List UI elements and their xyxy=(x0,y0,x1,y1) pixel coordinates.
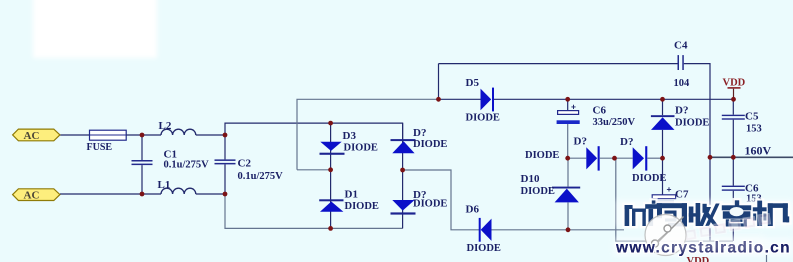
svg-text:DIODE: DIODE xyxy=(345,201,379,212)
junction fuse-C1 node top xyxy=(140,133,145,138)
wire drop from diode row xyxy=(616,158,733,241)
wire bridge mid to D6 branch xyxy=(403,170,479,230)
svg-text:AC: AC xyxy=(24,190,40,202)
diode D? bottom right of bridge xyxy=(391,200,416,215)
svg-text:L1: L1 xyxy=(158,179,171,191)
svg-text:0.1u/275V: 0.1u/275V xyxy=(238,171,284,182)
wire between mid diodes xyxy=(600,157,633,159)
svg-text:160V: 160V xyxy=(745,143,772,157)
diode row wire left xyxy=(568,157,587,159)
inductor L1 xyxy=(161,188,196,194)
bridge right column wire xyxy=(402,123,404,228)
junction bridge mid right xyxy=(400,168,405,173)
svg-text:D1: D1 xyxy=(345,188,358,200)
diode D1 xyxy=(319,199,343,211)
junction 160V left xyxy=(708,155,713,160)
fuse F? xyxy=(90,130,127,140)
junction diode row right xyxy=(660,156,665,161)
junction C4 riser xyxy=(436,97,441,102)
diode D? top right of bridge xyxy=(391,139,416,153)
svg-text:D?: D? xyxy=(413,127,426,139)
diode D? mid right xyxy=(633,146,648,170)
wire AC1 to fuse xyxy=(60,134,90,136)
svg-text:DIODE: DIODE xyxy=(675,117,709,128)
svg-text:DIODE: DIODE xyxy=(344,142,378,153)
svg-text:C5: C5 xyxy=(745,111,759,123)
svg-text:D10: D10 xyxy=(521,173,540,185)
wire jog C2 top to bridge xyxy=(225,123,331,135)
svg-text:33u/250V: 33u/250V xyxy=(593,117,636,128)
wire loop to bridge mid xyxy=(297,169,331,171)
svg-text:D?: D? xyxy=(675,105,688,117)
svg-text:C2: C2 xyxy=(238,158,252,170)
wire D10 to bottom xyxy=(567,202,569,229)
junction C5 top VDD xyxy=(731,97,736,102)
connector AC top xyxy=(13,129,60,142)
svg-text:DIODE: DIODE xyxy=(467,243,501,254)
watermark diagonal light text xyxy=(683,213,771,240)
wire C4 right down to rails xyxy=(684,64,710,241)
svg-text:VDD: VDD xyxy=(723,78,746,89)
wire fuse to node xyxy=(126,134,161,136)
diode D10 column xyxy=(567,158,569,186)
svg-text:DIODE: DIODE xyxy=(525,150,559,161)
junction bridge mid left xyxy=(328,167,333,172)
svg-text:FUSE: FUSE xyxy=(87,142,113,153)
svg-text:DIODE: DIODE xyxy=(521,186,555,197)
svg-text:153: 153 xyxy=(746,123,762,134)
wire top rail with D5 xyxy=(439,98,481,100)
capacitor C7 xyxy=(652,195,675,204)
svg-text:+: + xyxy=(667,184,672,194)
diode D6 xyxy=(479,218,492,242)
junction D10 bottom xyxy=(566,227,571,232)
net 160V rail xyxy=(709,156,793,158)
svg-text:0.1u/275V: 0.1u/275V xyxy=(164,159,210,170)
svg-text:DIODE: DIODE xyxy=(413,139,447,150)
wire D6 to right xyxy=(492,229,625,231)
diode D? mid left xyxy=(586,146,599,170)
wire bottom loop xyxy=(225,194,403,228)
svg-text:C7: C7 xyxy=(675,189,689,201)
svg-text:D6: D6 xyxy=(466,204,480,216)
junction bridge top left xyxy=(328,121,333,126)
svg-text:D5: D5 xyxy=(466,77,480,89)
wire bridge top rail to right column xyxy=(331,123,403,139)
bridge left column wire xyxy=(330,123,332,228)
junction right diode column top xyxy=(660,97,665,102)
svg-text:DIODE: DIODE xyxy=(413,199,447,210)
junction diode row mid xyxy=(612,156,617,161)
wire L2 to C2 node xyxy=(196,134,225,136)
junction C2 node top xyxy=(223,133,228,138)
svg-text:D?: D? xyxy=(620,136,633,148)
wire mid diode to right column xyxy=(647,157,662,159)
capacitor C2 xyxy=(215,135,236,194)
capacitor C1 xyxy=(132,135,153,194)
watermark backdrop glow xyxy=(614,200,793,256)
capacitor C6 electrolytic xyxy=(557,99,580,158)
svg-text:DIODE: DIODE xyxy=(466,113,500,124)
svg-text:D?: D? xyxy=(574,136,587,148)
right column diode D? xyxy=(651,99,675,195)
junction bridge bottom left xyxy=(328,226,333,231)
svg-text:+: + xyxy=(571,101,576,111)
capacitor C6 right xyxy=(722,157,745,241)
svg-text:L2: L2 xyxy=(159,120,172,132)
svg-text:C6: C6 xyxy=(593,105,607,117)
svg-text:104: 104 xyxy=(674,78,691,89)
wire stub bottom right xyxy=(766,255,768,262)
junction C2 node bottom xyxy=(223,192,228,197)
diode D10 xyxy=(552,187,580,203)
wire loop left vertical xyxy=(297,99,439,170)
junction C5-C6 160V xyxy=(731,155,736,160)
junction C6 top xyxy=(565,97,570,102)
capacitor C5 xyxy=(722,99,745,157)
connector AC bottom xyxy=(13,189,60,202)
svg-text:VDD: VDD xyxy=(687,256,710,262)
wire riser to C4 xyxy=(438,64,440,100)
inductor L2 xyxy=(161,129,196,135)
svg-text:DIODE: DIODE xyxy=(632,173,666,184)
white patch top-left xyxy=(33,0,157,58)
wire VDD rail xyxy=(494,98,734,100)
junction C1 node bottom xyxy=(140,192,145,197)
url wash overlay xyxy=(655,234,765,252)
capacitor C4 xyxy=(678,55,684,70)
svg-text:D3: D3 xyxy=(343,130,357,142)
wire AC2 to L1 xyxy=(60,193,161,195)
diode D5 xyxy=(481,88,495,112)
power VDD top xyxy=(723,78,746,100)
wire L1 to C2 bottom node xyxy=(196,193,225,195)
svg-text:AC: AC xyxy=(24,130,40,142)
svg-text:C4: C4 xyxy=(674,39,688,51)
junction diode row left xyxy=(565,156,570,161)
diode D3 xyxy=(320,142,345,155)
watermark logo circle xyxy=(645,215,686,256)
wire C4 left xyxy=(439,63,678,65)
